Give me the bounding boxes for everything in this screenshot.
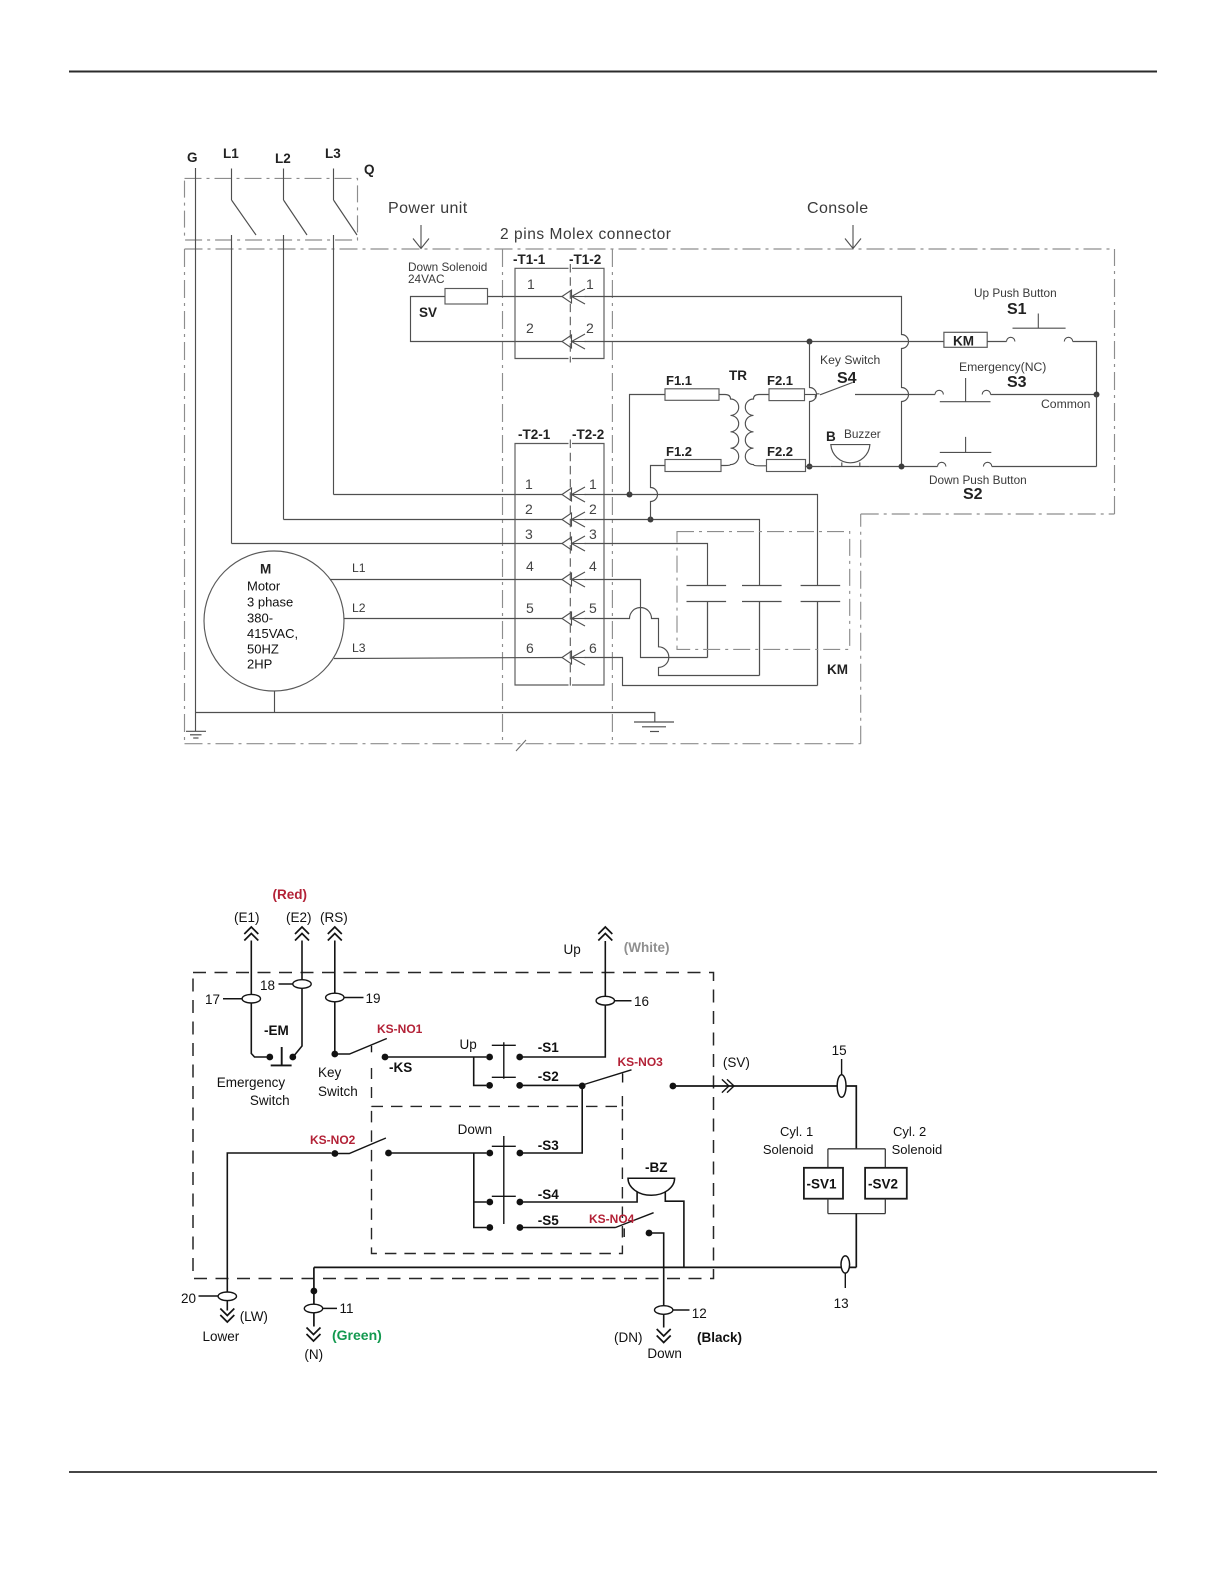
motor lead L3 to T2 pin6 bbox=[334, 658, 562, 659]
emergency button S3 actuator (NC bar below) bbox=[940, 378, 991, 402]
svg-text:20: 20 bbox=[181, 1291, 196, 1306]
wire E1 bbox=[251, 941, 266, 1058]
S2 contact dots bbox=[486, 1082, 493, 1089]
emergency switch EM contacts bbox=[266, 1054, 273, 1061]
svg-text:3: 3 bbox=[589, 526, 597, 542]
svg-text:2: 2 bbox=[589, 501, 597, 517]
KS-NO3 blade bbox=[584, 1070, 632, 1085]
KS output dot bbox=[382, 1054, 389, 1061]
svg-text:Console: Console bbox=[807, 200, 869, 217]
neutral bus (green) bbox=[314, 1266, 856, 1268]
svg-text:F2.2: F2.2 bbox=[767, 444, 793, 459]
svg-text:M: M bbox=[260, 562, 271, 577]
svg-text:-EM: -EM bbox=[264, 1023, 289, 1038]
wire S4 to buzzer left leg bbox=[520, 1192, 637, 1202]
solenoid SV1 box bbox=[804, 1168, 843, 1199]
connector T2-1 box bbox=[515, 444, 569, 686]
svg-text:-SV1: -SV1 bbox=[807, 1177, 838, 1192]
fuse F1.1 bbox=[665, 389, 719, 401]
ground bus bbox=[195, 713, 655, 723]
T2 pin arrows 1-6 bbox=[562, 487, 586, 502]
breaker pole L2 bbox=[284, 169, 308, 520]
svg-text:18: 18 bbox=[260, 978, 275, 993]
solenoid SV2 box bbox=[865, 1168, 907, 1199]
svg-text:50HZ: 50HZ bbox=[247, 642, 279, 657]
svg-text:S1: S1 bbox=[1007, 301, 1027, 318]
wire (SV) to terminal 15 bbox=[673, 1085, 837, 1087]
terminal arrow E2 bbox=[295, 927, 309, 941]
power unit / console dash-dot enclosure bbox=[185, 249, 1115, 744]
wire KS to S1/S2 branch bbox=[385, 1057, 486, 1085]
KS-NO2 blade bbox=[335, 1138, 386, 1154]
KS-NO3 fixed contact tick bbox=[622, 1074, 624, 1083]
connector T1-2 box bbox=[572, 268, 604, 358]
terminal arrow RS bbox=[328, 927, 342, 941]
console dashed enclosure (bottom diagram) bbox=[193, 973, 714, 1279]
junction dot pin1/F1.1 bbox=[627, 492, 633, 498]
svg-text:S4: S4 bbox=[837, 370, 857, 387]
push button S2 contacts bbox=[938, 462, 992, 466]
KS-NO4 output dot bbox=[646, 1230, 653, 1237]
svg-text:1: 1 bbox=[589, 476, 597, 492]
key switch group left edge extension bbox=[371, 1068, 373, 1106]
wire RS bbox=[334, 941, 336, 1054]
labels: top schematic bbox=[187, 146, 869, 656]
svg-text:Switch: Switch bbox=[250, 1093, 290, 1108]
svg-text:Solenoid: Solenoid bbox=[763, 1142, 814, 1157]
svg-text:Buzzer: Buzzer bbox=[844, 427, 881, 441]
svg-text:Cyl. 1: Cyl. 1 bbox=[780, 1124, 813, 1139]
ground (right) bbox=[634, 722, 674, 732]
svg-text:-S3: -S3 bbox=[538, 1138, 560, 1153]
neutral drop to terminal 11 bbox=[313, 1267, 315, 1326]
motor ground stem bbox=[274, 691, 276, 713]
terminal arrow LW (down) bbox=[220, 1309, 234, 1323]
key switch KS pivot dot bbox=[331, 1051, 338, 1058]
labels: bottom schematic bbox=[181, 887, 942, 1362]
svg-text:15: 15 bbox=[832, 1043, 847, 1058]
power unit pointer arrow bbox=[413, 225, 429, 249]
KS-NO2 left wire bbox=[227, 1153, 331, 1311]
svg-text:19: 19 bbox=[366, 991, 381, 1006]
lead line 20 bbox=[199, 1295, 219, 1297]
KM middle contact bbox=[742, 586, 782, 676]
svg-text:Q: Q bbox=[364, 162, 375, 177]
fuse F2.1 bbox=[769, 389, 805, 401]
svg-text:Common: Common bbox=[1041, 397, 1090, 411]
svg-text:-SV2: -SV2 bbox=[868, 1177, 898, 1192]
svg-text:(N): (N) bbox=[304, 1347, 323, 1362]
buzzer row under dome bbox=[831, 466, 870, 468]
svg-text:(E2): (E2) bbox=[286, 910, 312, 925]
svg-text:L2: L2 bbox=[352, 601, 366, 615]
svg-text:17: 17 bbox=[205, 992, 220, 1007]
svg-text:(Black): (Black) bbox=[697, 1330, 742, 1345]
terminal oval 17 bbox=[242, 994, 260, 1003]
wire T2 pin3 to KM left contact bbox=[585, 544, 708, 586]
wire S1 right contact to common rail bbox=[1073, 342, 1097, 395]
page bottom rule bbox=[69, 1471, 1157, 1473]
svg-text:-S2: -S2 bbox=[538, 1069, 559, 1084]
wire S2 to KS-NO3 bbox=[520, 1084, 583, 1086]
svg-text:F2.1: F2.1 bbox=[767, 373, 793, 388]
junction dot F2.2 output row bbox=[807, 464, 813, 470]
svg-text:-S4: -S4 bbox=[538, 1187, 560, 1202]
svg-text:Lower: Lower bbox=[203, 1329, 240, 1344]
solenoid top rail bbox=[828, 1149, 885, 1168]
push button S1 contacts bbox=[1007, 337, 1073, 341]
key switch S4 output row to S3 bbox=[855, 394, 935, 396]
fuse F1.2 bbox=[665, 460, 721, 472]
emergency switch EM actuator bbox=[271, 1047, 292, 1065]
solenoid bottom rail bbox=[828, 1199, 885, 1214]
wire S2 right contact to common rail bbox=[992, 466, 1097, 468]
tap wire from T1 pin2 down to F2.2 output row bbox=[810, 342, 817, 467]
KM left contact bbox=[687, 586, 727, 658]
key switch S4 blade bbox=[820, 383, 853, 395]
svg-text:415VAC,: 415VAC, bbox=[247, 626, 298, 641]
lead line 19 bbox=[344, 997, 364, 999]
connector T1-1 box bbox=[515, 268, 569, 358]
svg-text:1: 1 bbox=[527, 276, 535, 292]
wire L1 to T2 pin3 bbox=[232, 543, 563, 545]
buzzer legs bbox=[842, 462, 860, 466]
svg-text:Emergency: Emergency bbox=[217, 1075, 286, 1090]
svg-text:5: 5 bbox=[589, 600, 597, 616]
svg-text:S2: S2 bbox=[963, 486, 983, 503]
svg-text:L2: L2 bbox=[275, 151, 291, 166]
transformer TR secondary winding bbox=[745, 395, 769, 466]
svg-text:12: 12 bbox=[692, 1306, 707, 1321]
SV output dot bbox=[670, 1083, 677, 1090]
motor lead L1 to T2 pin4 bbox=[330, 579, 562, 581]
wire L3 to T2 pin1 bbox=[334, 494, 563, 496]
svg-text:2: 2 bbox=[526, 320, 534, 336]
lead line 18 bbox=[279, 983, 293, 985]
svg-text:6: 6 bbox=[589, 640, 597, 656]
wire S3 right contact to common rail bbox=[991, 394, 1097, 396]
console pointer arrow bbox=[845, 225, 861, 249]
svg-text:B: B bbox=[826, 429, 836, 444]
svg-text:2: 2 bbox=[525, 501, 533, 517]
svg-text:4: 4 bbox=[526, 558, 534, 574]
svg-text:(Red): (Red) bbox=[273, 887, 308, 902]
svg-text:-S5: -S5 bbox=[538, 1213, 560, 1228]
terminal arrow N (down) bbox=[307, 1328, 321, 1342]
svg-text:S3: S3 bbox=[1007, 374, 1027, 391]
13 label stem bbox=[844, 1274, 846, 1289]
svg-text:Down: Down bbox=[647, 1346, 682, 1361]
svg-text:3: 3 bbox=[525, 526, 533, 542]
wire KS-NO2 to S3/S4/S5 branch bbox=[389, 1153, 487, 1228]
T1 mating dashed line bbox=[569, 264, 571, 363]
motor lead L2 to T2 pin5 bbox=[344, 618, 562, 620]
svg-text:4: 4 bbox=[589, 558, 597, 574]
wire T1 pin1 to console (long drop to buzzer row) bbox=[585, 297, 909, 467]
svg-text:F1.2: F1.2 bbox=[666, 444, 692, 459]
breaker pole L3 bbox=[334, 169, 358, 495]
svg-text:24VAC: 24VAC bbox=[408, 272, 445, 286]
svg-text:5: 5 bbox=[526, 600, 534, 616]
svg-text:(E1): (E1) bbox=[234, 910, 260, 925]
svg-text:-BZ: -BZ bbox=[645, 1160, 668, 1175]
S3 contact dots bbox=[486, 1150, 493, 1157]
KS-NO1 fixed contact tick bbox=[371, 1046, 373, 1053]
lead line 11 bbox=[323, 1307, 337, 1309]
wire S3 up to KS-NO3 pivot bbox=[520, 1086, 582, 1153]
key switch group corner jog at KS-NO3 bbox=[621, 1096, 623, 1106]
junction dot common rail bbox=[1094, 392, 1100, 398]
connector T2-2 box bbox=[572, 444, 604, 686]
svg-text:Up: Up bbox=[460, 1037, 477, 1052]
svg-text:Key Switch: Key Switch bbox=[820, 353, 880, 367]
svg-text:-T1-1: -T1-1 bbox=[513, 252, 546, 267]
svg-text:L1: L1 bbox=[352, 561, 366, 575]
S5 contact dots bbox=[486, 1224, 493, 1231]
KS-NO4 blade bbox=[616, 1213, 654, 1228]
wire T1 pin2 to KM coil box bbox=[585, 341, 944, 343]
F1.2 left lead down to pin2 row (hop over pin1) bbox=[651, 466, 666, 520]
KM contacts dash-dot group box bbox=[677, 532, 850, 650]
svg-text:Cyl. 2: Cyl. 2 bbox=[893, 1124, 926, 1139]
F2.2 output lead (buzzer row) bbox=[806, 465, 938, 468]
wire L2 to T2 pin2 bbox=[284, 519, 563, 521]
wire T2 pin6 to KM right contact bottom bbox=[585, 658, 818, 686]
svg-text:(RS): (RS) bbox=[320, 910, 348, 925]
svg-text:-T2-1: -T2-1 bbox=[518, 427, 551, 442]
svg-text:-S1: -S1 bbox=[538, 1040, 560, 1055]
buzzer BZ dome bbox=[628, 1178, 675, 1195]
F1.1 left lead down to pin1 row bbox=[630, 395, 666, 495]
junction dot T1 pin2 / F2 tap bbox=[807, 339, 813, 345]
wire 15 to solenoid rail bbox=[846, 1086, 856, 1149]
key switch S4 pivot contact bbox=[815, 394, 819, 399]
svg-text:Key: Key bbox=[318, 1065, 342, 1080]
wire KS-NO4 to DN terminal bbox=[649, 1233, 664, 1328]
wire KM box to S1 left contact bbox=[987, 341, 1006, 343]
T1 pin1 arrow bbox=[562, 289, 586, 304]
svg-text:KM: KM bbox=[953, 334, 974, 349]
svg-text:2 pins Molex connector: 2 pins Molex connector bbox=[500, 226, 672, 243]
svg-text:-T2-2: -T2-2 bbox=[572, 427, 604, 442]
terminal oval 12 bbox=[655, 1306, 673, 1315]
ground (left) bbox=[186, 731, 206, 738]
common rail down to S2 bbox=[1096, 395, 1098, 467]
svg-text:KM: KM bbox=[827, 662, 848, 677]
svg-text:16: 16 bbox=[634, 994, 649, 1009]
svg-text:6: 6 bbox=[526, 640, 534, 656]
lead line 12 bbox=[673, 1309, 690, 1311]
KS-NO4 fixed contact tick bbox=[623, 1228, 625, 1237]
wire S5 to KS-NO4 bbox=[520, 1227, 616, 1229]
svg-text:SV: SV bbox=[419, 305, 437, 320]
svg-text:(White): (White) bbox=[624, 940, 670, 955]
terminal oval 16 bbox=[596, 996, 614, 1005]
SV right lead to T1 pin1 bbox=[488, 296, 563, 298]
svg-text:L3: L3 bbox=[325, 146, 341, 161]
svg-text:2: 2 bbox=[586, 320, 594, 336]
wire T2 pin5 to KM middle contact bottom (with hops) bbox=[585, 608, 760, 676]
transformer TR primary winding bbox=[719, 395, 739, 466]
svg-text:L3: L3 bbox=[352, 641, 366, 655]
KM coil box bbox=[944, 332, 987, 347]
svg-text:1: 1 bbox=[586, 276, 594, 292]
KS-NO2 pivot dot bbox=[332, 1150, 339, 1157]
console left internal dash-dot border bbox=[611, 249, 613, 744]
SV left lead down to T1 pin2 row bbox=[411, 297, 563, 342]
pushbutton Down actuator bbox=[492, 1136, 516, 1224]
buzzer B dome bbox=[831, 445, 870, 463]
wire T2 pin4 to KM left contact bottom bbox=[585, 580, 708, 658]
wire 20 terminal bbox=[218, 1292, 236, 1301]
junction dot neutral bbox=[311, 1288, 318, 1295]
S1 contact dots bbox=[486, 1054, 493, 1061]
svg-text:Up Push Button: Up Push Button bbox=[974, 286, 1057, 300]
svg-text:KS-NO2: KS-NO2 bbox=[310, 1133, 356, 1147]
wire G bbox=[195, 168, 197, 731]
svg-text:KS-NO4: KS-NO4 bbox=[589, 1212, 635, 1226]
svg-text:Emergency(NC): Emergency(NC) bbox=[959, 360, 1046, 374]
terminal oval 18 bbox=[293, 980, 311, 989]
svg-text:(Green): (Green) bbox=[332, 1327, 382, 1343]
svg-text:G: G bbox=[187, 150, 198, 165]
junction dot pin2/F1.2 bbox=[648, 517, 654, 523]
terminal arrow DN (down) bbox=[657, 1329, 671, 1343]
svg-text:Down Push Button: Down Push Button bbox=[929, 473, 1027, 487]
svg-text:Down: Down bbox=[458, 1122, 493, 1137]
S4 contact dots bbox=[486, 1199, 493, 1206]
pushbutton Up actuator bbox=[492, 1042, 516, 1079]
KM right contact bbox=[801, 586, 841, 686]
key switch group dashed box bbox=[372, 1106, 623, 1253]
15 label stem bbox=[841, 1059, 843, 1075]
svg-text:Switch: Switch bbox=[318, 1084, 358, 1099]
key switch KS blade KS-NO1 bbox=[335, 1039, 387, 1055]
svg-text:Up: Up bbox=[564, 942, 581, 957]
svg-text:13: 13 bbox=[834, 1296, 849, 1311]
terminal oval 13 (vertical) bbox=[841, 1256, 850, 1273]
breaker pole L1 bbox=[232, 169, 257, 544]
wire solenoid return to bus bbox=[855, 1214, 857, 1268]
lead line 16 bbox=[615, 1000, 632, 1002]
emergency button S3 contacts bbox=[935, 390, 991, 394]
svg-text:(DN): (DN) bbox=[614, 1330, 643, 1345]
lead line 17 bbox=[223, 998, 242, 1000]
svg-text:TR: TR bbox=[729, 368, 747, 383]
wire T2 pin2 to KM middle contact bbox=[585, 520, 760, 586]
wire E2 bbox=[293, 941, 302, 1058]
wire T2 pin1 to KM right contact bbox=[585, 495, 818, 586]
svg-text:-T1-2: -T1-2 bbox=[569, 252, 601, 267]
T1 pin2 arrow bbox=[562, 334, 586, 349]
svg-text:L1: L1 bbox=[223, 146, 239, 161]
power unit right internal dash-dot border bbox=[502, 249, 504, 744]
T2 mating dashed line bbox=[569, 440, 571, 690]
terminal oval 15 (vertical) bbox=[837, 1075, 846, 1098]
F2.1 output lead to key switch bbox=[805, 394, 816, 396]
solenoid SV body bbox=[445, 289, 488, 305]
push button S1 actuator bbox=[1013, 314, 1066, 329]
svg-text:2HP: 2HP bbox=[247, 657, 272, 672]
svg-text:Power unit: Power unit bbox=[388, 200, 468, 217]
svg-text:11: 11 bbox=[340, 1301, 354, 1316]
terminal arrow E1 bbox=[244, 927, 258, 941]
svg-text:-KS: -KS bbox=[389, 1060, 412, 1075]
slash tick on bottom border bbox=[516, 740, 526, 751]
breaker Q dash-dot box bbox=[185, 178, 358, 240]
wire S1 to Up terminal bbox=[520, 941, 606, 1057]
svg-text:KS-NO3: KS-NO3 bbox=[618, 1055, 664, 1069]
svg-text:380-: 380- bbox=[247, 611, 273, 626]
terminal oval 11 bbox=[304, 1304, 322, 1313]
KS-NO2 fixed dot bbox=[385, 1150, 392, 1157]
junction dot buzzer row / long drop bbox=[899, 464, 905, 470]
svg-text:F1.1: F1.1 bbox=[666, 373, 692, 388]
fuse F2.2 bbox=[767, 460, 806, 472]
terminal arrow Up (White) bbox=[598, 927, 612, 941]
svg-text:3 phase: 3 phase bbox=[247, 595, 293, 610]
terminal oval 19 bbox=[326, 993, 344, 1002]
KS-NO3 pivot dot bbox=[579, 1083, 586, 1090]
(SV) flow chevrons bbox=[722, 1079, 734, 1092]
svg-text:Solenoid: Solenoid bbox=[892, 1142, 943, 1157]
push button S2 actuator bbox=[940, 437, 992, 453]
svg-text:1: 1 bbox=[525, 476, 533, 492]
svg-text:(LW): (LW) bbox=[240, 1309, 268, 1324]
motor M circle bbox=[204, 551, 344, 691]
svg-text:(SV): (SV) bbox=[723, 1055, 750, 1070]
buzzer right leg to bus bbox=[665, 1192, 684, 1268]
svg-text:Motor: Motor bbox=[247, 579, 281, 594]
page top rule bbox=[69, 71, 1157, 73]
svg-text:KS-NO1: KS-NO1 bbox=[377, 1022, 423, 1036]
